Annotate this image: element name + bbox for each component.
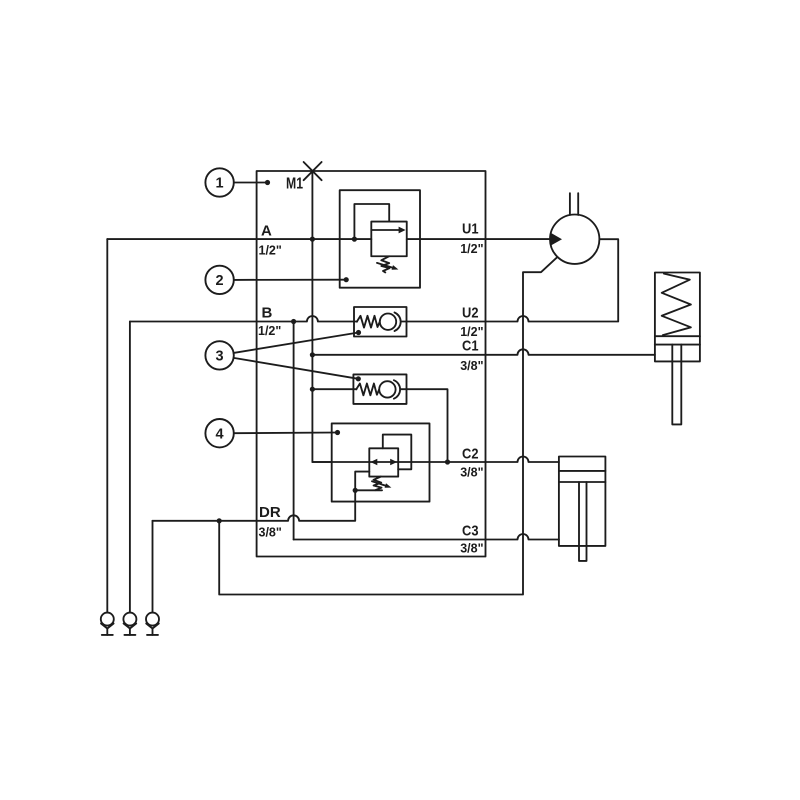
svg-text:U1: U1 — [462, 221, 479, 238]
svg-text:DR: DR — [259, 504, 281, 521]
relief valve RV1 pilot line — [354, 204, 389, 239]
leader line callout 3 to CV1 — [234, 333, 359, 353]
relief valve RV1 square — [371, 222, 406, 257]
motor flow arrowhead on U1 line — [550, 232, 562, 246]
svg-text:M1: M1 — [286, 176, 303, 193]
node: junction check valve CV2 feed branch — [310, 387, 315, 392]
brake cylinder rod — [672, 345, 681, 425]
svg-text:3/8": 3/8" — [460, 359, 483, 373]
svg-text:3: 3 — [216, 349, 224, 365]
svg-text:2: 2 — [216, 273, 224, 289]
check valve CV1 box — [354, 307, 407, 337]
wire: riser B line down to C3 line — [293, 322, 295, 540]
check valve CV1 ball — [380, 314, 396, 330]
node: junction on DR riser — [353, 488, 358, 493]
wire: C3 line from B riser to cylinder, hop over drain riser — [294, 534, 559, 540]
relief valve RV1 enclosure — [340, 190, 420, 288]
check valve CV1 spring — [357, 316, 380, 328]
counterbalance valve CB1 enclosure — [332, 423, 430, 501]
test point riser from B — [129, 322, 131, 613]
svg-text:C2: C2 — [462, 446, 479, 463]
svg-text:1/2": 1/2" — [258, 324, 281, 338]
callout circle 1 — [205, 168, 233, 196]
wire: drain loop from DR junction to motor case drain — [219, 257, 557, 594]
callout circle 3 — [205, 341, 233, 369]
node: pilot tap on A line — [352, 237, 357, 242]
svg-text:1/2": 1/2" — [460, 242, 483, 256]
port M1 cross symbol — [304, 162, 322, 180]
leader line callout 4 — [234, 432, 338, 435]
motor shaft lines — [569, 193, 571, 215]
svg-text:C3: C3 — [462, 522, 479, 539]
cylinder rod — [579, 482, 587, 561]
callout circle 4 — [205, 419, 233, 447]
test point riser from A — [106, 239, 108, 612]
wire: M1 gauge vertical line down to C2 corner — [312, 171, 331, 462]
svg-text:3/8": 3/8" — [460, 466, 483, 480]
wire: port B line with hop over M1 line, into check valve CV1 — [130, 316, 357, 322]
leader line callout 1 — [234, 182, 268, 184]
svg-text:3/8": 3/8" — [460, 542, 483, 556]
node: junction B to C3 riser — [291, 319, 296, 324]
counterbalance CB1 main square — [369, 448, 398, 476]
node: junction M1 x A line — [310, 237, 315, 242]
wire: CV2 outlet down to C2 line — [407, 389, 448, 462]
counterbalance CB1 left flow arrowhead — [370, 459, 377, 465]
check valve CV2 box — [353, 374, 406, 404]
svg-text:1: 1 — [216, 176, 224, 192]
wire: port A line from test point riser to relief valve — [107, 238, 371, 240]
wire: A line through relief valve square to U1 port and motor — [407, 238, 551, 240]
wire: DR line with hop over B riser, up into counterbalance spring chamber — [153, 472, 370, 521]
wire: C2 segment through CB1 main square — [312, 461, 398, 463]
counterbalance CB1 pilot square (clipped by main square) — [383, 435, 412, 470]
leader line callout 2 — [234, 279, 346, 281]
counterbalance CB1 spring — [374, 477, 382, 491]
test point TP2 — [123, 613, 136, 635]
cylinder piston — [559, 470, 606, 472]
test point riser from DR — [152, 521, 154, 613]
brake cylinder piston — [655, 335, 700, 337]
manifold block outline — [257, 171, 486, 557]
svg-text:4: 4 — [216, 426, 224, 442]
check valve CV2 seat — [394, 380, 400, 399]
relief valve RV1 spring — [381, 256, 389, 272]
leader line callout 3 to CV2 — [234, 358, 359, 379]
relief valve RV1 adjustment arrow — [377, 263, 394, 268]
svg-text:1/2": 1/2" — [259, 244, 282, 258]
svg-text:C1: C1 — [462, 338, 479, 355]
wire: feed line to check valve CV2 — [312, 388, 356, 390]
node: junction C1 branch — [310, 352, 315, 357]
wire: C1 line from M1 riser to brake cylinder, hop over drain riser — [312, 349, 655, 354]
callout circle 2 — [205, 266, 233, 294]
svg-text:U2: U2 — [462, 304, 479, 321]
wire: C2 line from counterbalance to cylinder, hop over drain riser — [398, 457, 559, 463]
node: junction DR to tank/drain loop — [217, 518, 222, 523]
brake cylinder spring — [662, 274, 691, 336]
check valve CV2 ball — [379, 381, 395, 397]
counterbalance CB1 adjustment arrow — [372, 481, 387, 486]
wire: DR riser along CB1 with spring chamber tap — [355, 489, 382, 491]
test point TP1 — [101, 613, 114, 635]
relief valve RV1 flow arrow — [371, 229, 399, 231]
svg-text:B: B — [262, 304, 273, 321]
node: junction CV2 outlet on C2 — [445, 459, 450, 464]
hydraulic motor M1 circle — [550, 215, 599, 264]
test point TP3 — [146, 613, 159, 635]
svg-text:3/8": 3/8" — [259, 525, 282, 539]
cylinder body — [559, 457, 606, 546]
counterbalance CB1 right flow arrowhead — [390, 459, 397, 465]
brake cylinder body — [655, 273, 700, 362]
check valve CV2 spring — [356, 384, 379, 396]
svg-text:A: A — [261, 222, 272, 239]
check valve CV1 seat — [395, 313, 401, 332]
wire: U2 line from CV1 to manifold edge, hop over drain riser, to motor loop — [407, 239, 619, 321]
